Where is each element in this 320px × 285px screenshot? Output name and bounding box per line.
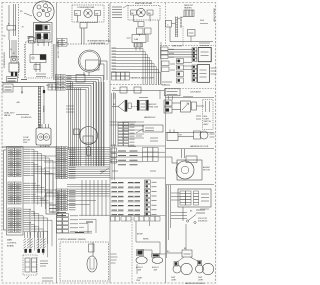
svg-text:WH/BK: WH/BK [143,239,149,241]
svg-text:COMPRESSOR: COMPRESSOR [4,52,6,68]
svg-text:40W: 40W [154,270,158,272]
svg-text:TSTAT 120V: TSTAT 120V [148,106,159,109]
svg-text:J-BOX ASSY: J-BOX ASSY [190,91,202,94]
svg-text:MAIN: MAIN [7,239,13,242]
svg-text:CONTROL ASSEMBLY (REFER): CONTROL ASSEMBLY (REFER) [58,238,86,241]
svg-text:HARNESS-MACH COMPT: HARNESS-MACH COMPT [131,77,156,80]
svg-text:BOARD: BOARD [7,244,15,247]
svg-text:VALVE: VALVE [4,114,11,117]
svg-text:LIGHT: LIGHT [198,280,204,282]
svg-text:GRN: GRN [100,171,105,173]
svg-text:AUGER: AUGER [203,166,210,169]
svg-text:C8: C8 [3,36,5,38]
svg-text:MOTOR-COND FAN: MOTOR-COND FAN [57,40,60,58]
svg-text:40W: 40W [138,270,142,272]
svg-text:EVAPORATOR FAN: EVAPORATOR FAN [135,2,153,5]
svg-text:CONDENSER FAN: CONDENSER FAN [77,6,95,9]
svg-text:W-W: W-W [200,20,204,22]
svg-text:+BK: +BK [16,102,21,104]
svg-text:OF FAN DIAGRAM: OF FAN DIAGRAM [90,42,106,45]
svg-text:MOTOR: MOTOR [203,170,211,172]
svg-text:SOLENOID: SOLENOID [21,117,32,119]
svg-text:W: W [13,53,15,55]
svg-text:78: 78 [22,27,24,29]
svg-text:HARNESS-FZ DOOR: HARNESS-FZ DOOR [190,145,209,148]
svg-text:BK/WH: BK/WH [137,234,143,236]
svg-text:ASSY: ASSY [204,123,210,126]
svg-text:ACTUATOR: ACTUATOR [40,145,50,148]
svg-text:SOLENOID: SOLENOID [198,221,208,223]
svg-text:HIGH VOLTAGE: HIGH VOLTAGE [213,7,216,22]
svg-text:120V: 120V [23,142,28,144]
svg-text:HEATER: HEATER [184,7,192,10]
svg-text:LIGHT: LIGHT [171,280,177,282]
svg-text:CONTROL: CONTROL [7,242,18,244]
svg-text:HARNESS-FZ: HARNESS-FZ [144,116,156,119]
svg-text:LIGHT: LIGHT [137,278,143,280]
svg-text:WH/BU: WH/BU [44,105,46,112]
svg-text:DUAL H2O: DUAL H2O [4,112,15,115]
svg-text:LINE CORD: LINE CORD [172,46,183,48]
